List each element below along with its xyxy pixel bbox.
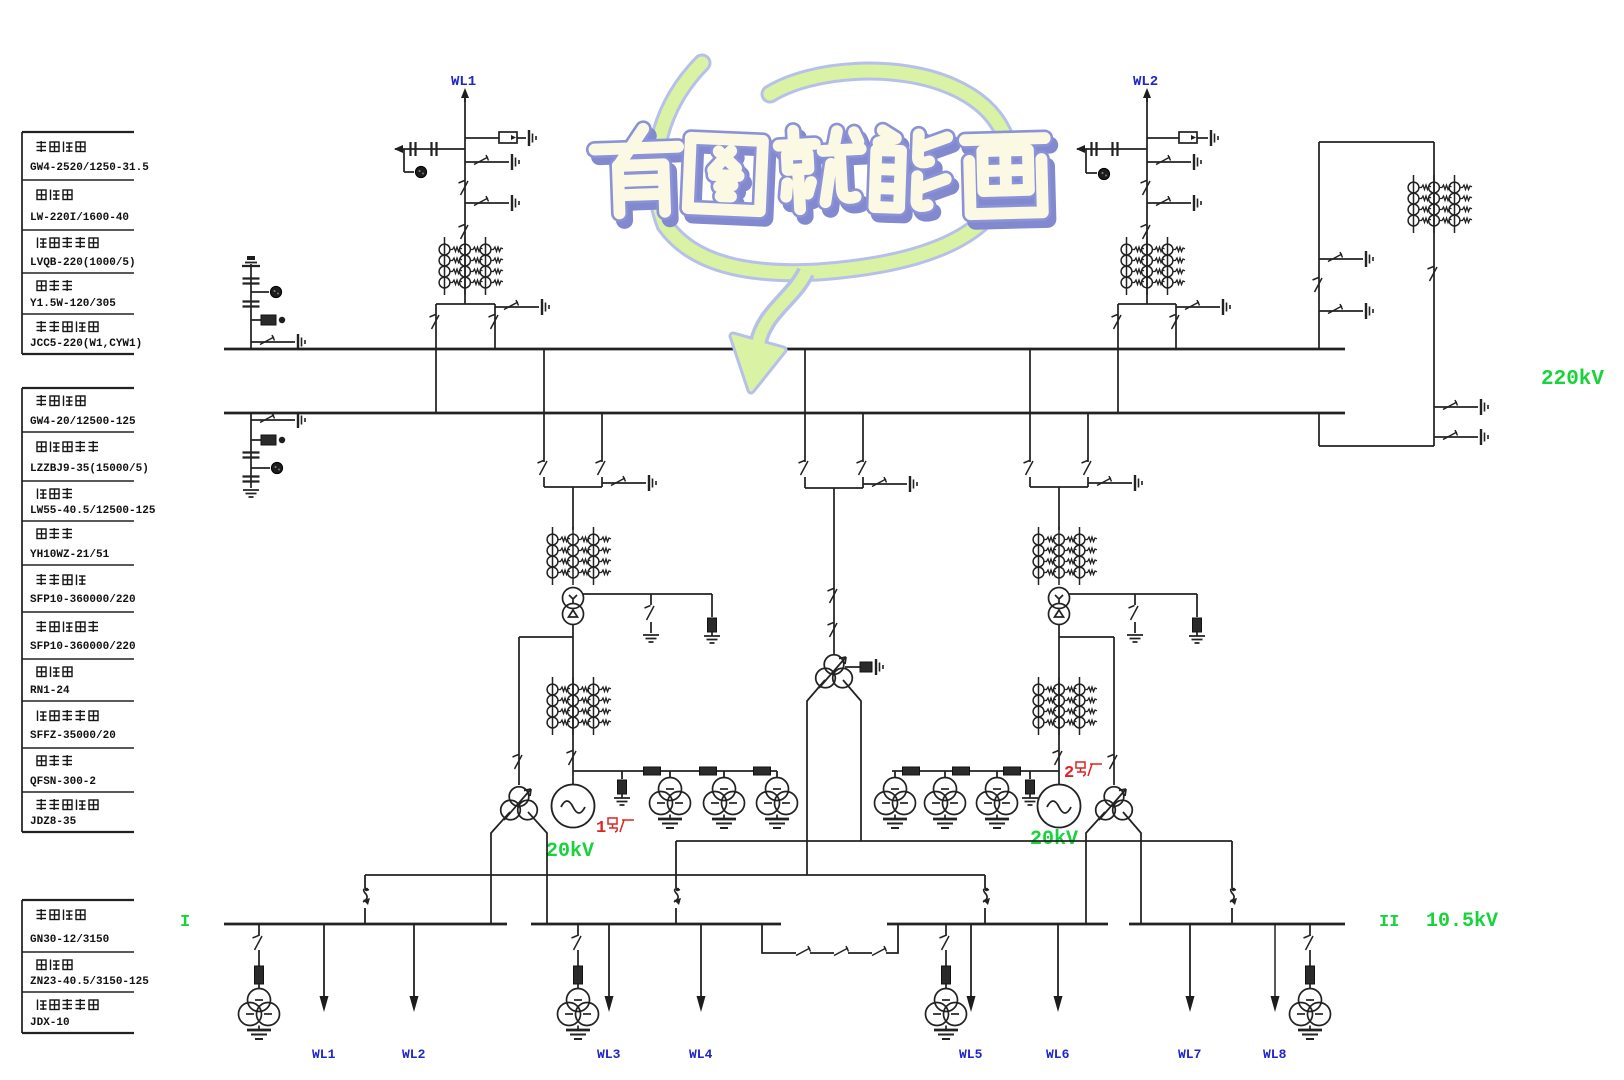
svg-text:WL8: WL8 (1263, 1047, 1287, 1062)
standby legs (807, 680, 861, 875)
svg-text:WL4: WL4 (689, 1047, 713, 1062)
feeder WL4 (689, 924, 713, 1062)
ground CVT W2 (243, 490, 259, 497)
switch line B right (983, 888, 990, 905)
svg-text:JCC5-220(W1,CYW1): JCC5-220(W1,CYW1) (30, 338, 142, 350)
svg-text:JDX-10: JDX-10 (30, 1017, 70, 1029)
unit aux transformer G1 (501, 787, 538, 820)
svg-text:LVQB-220(1000/5): LVQB-220(1000/5) (30, 257, 136, 269)
svg-text:II: II (1379, 913, 1399, 932)
fuse FU1 G1 (644, 767, 661, 775)
PT group 1 G2 (875, 778, 916, 829)
table row C.2 (30, 960, 149, 989)
disconnect to bus W1 WL1 (489, 315, 499, 330)
PT bay section II (1290, 924, 1331, 1039)
line arrow WL1 (461, 88, 469, 102)
switch line A right (1230, 888, 1237, 905)
fuse FU2 G1 (700, 767, 717, 775)
feeder WL3 (597, 924, 621, 1062)
disconnect to bus W2 WL2 (1112, 315, 1122, 330)
earthing switch coupler right upper (1434, 399, 1488, 415)
disconnect QS1 WL1 (459, 181, 469, 196)
table row B.10 (30, 799, 98, 828)
feeder WL7 (1178, 924, 1201, 1062)
svg-text:20kV: 20kV (546, 840, 594, 863)
PT group 2 G2 (925, 778, 966, 829)
svg-text:1: 1 (596, 819, 606, 838)
switch line A left (674, 888, 681, 905)
watermark text shadow (599, 135, 685, 221)
capacitor C2 WL2 (1113, 142, 1118, 156)
neutral ground T2 (1127, 635, 1143, 642)
arrester CVT W1 (270, 286, 281, 297)
svg-text:WL3: WL3 (597, 1047, 621, 1062)
svg-text:WL2: WL2 (402, 1047, 426, 1062)
svg-text:ZN23-40.5/3150-125: ZN23-40.5/3150-125 (30, 976, 149, 988)
disconnect aux G2 (1108, 755, 1118, 770)
earthing switch standby HV (863, 476, 917, 492)
fuse FU2 G2 (953, 767, 970, 775)
line arrow WL2 (1143, 88, 1151, 102)
svg-text:Y1.5W-120/305: Y1.5W-120/305 (30, 298, 116, 310)
surge counter box WL1 (465, 130, 536, 146)
PT unit box CVT W2 (261, 435, 285, 445)
tie disconnect 1 (796, 946, 811, 956)
neutral disconnect T2 (1129, 606, 1139, 621)
HV neutral branch T1 (583, 594, 712, 633)
aux legs G2 (1086, 812, 1141, 924)
breaker tie box WL1 (436, 304, 495, 413)
unit aux transformer G2 (1096, 787, 1133, 820)
arrester 20kV G2 (1022, 780, 1038, 805)
earthing switch coupler left upper (1319, 251, 1373, 267)
table row B.9 (30, 755, 96, 788)
fuse FU3 G1 (754, 767, 771, 775)
disconnect standby from W2 (857, 461, 867, 476)
svg-text:LW-220I/1600-40: LW-220I/1600-40 (30, 212, 129, 224)
svg-text:LW55-40.5/12500-125: LW55-40.5/12500-125 (30, 505, 156, 517)
standby feed line A (676, 841, 1232, 924)
bus section 2 (531, 923, 781, 926)
svg-text:GW4-2520/1250-31.5: GW4-2520/1250-31.5 (30, 162, 149, 174)
coupling capacitor branch WL2 (1077, 149, 1147, 173)
table row B.4 (30, 528, 110, 561)
equipment table C (22, 900, 134, 1033)
feeder WL8 (1263, 924, 1287, 1062)
disconnect QS2 WL2 (1141, 225, 1151, 240)
CT group WL1 (439, 237, 503, 295)
neutral ground T1 (643, 635, 659, 642)
disconnect G1 (567, 751, 577, 766)
svg-text:JDZ8-35: JDZ8-35 (30, 816, 77, 828)
neutral arrester T1 (704, 618, 720, 643)
wire CVT W1 (251, 264, 269, 349)
earthing switch ES3 WL1 (495, 299, 549, 315)
generator G1 (572, 771, 574, 785)
disconnect QS1 WL2 (1141, 181, 1151, 196)
disconnect T2 from W1 (1024, 461, 1034, 476)
disconnect aux G1 (513, 755, 523, 770)
svg-text:I: I (180, 913, 190, 932)
arrester CVT W2 (271, 462, 282, 473)
feeder WL6 (1046, 924, 1070, 1062)
wire WL2 main (1146, 96, 1148, 304)
table row B.6 (30, 621, 136, 653)
capacitor C1 WL2 (1092, 142, 1097, 156)
label 2号厂 (1064, 762, 1102, 783)
equipment table A (22, 132, 134, 354)
table row A.1 (30, 141, 149, 174)
wire T1 bay (544, 349, 602, 530)
watermark text outline (594, 128, 680, 214)
capacitor CVT W2 upper (243, 453, 260, 458)
arrester F1 WL1 (415, 166, 426, 177)
svg-text:GN30-12/3150: GN30-12/3150 (30, 934, 109, 946)
earthing switch ES1 WL1 (465, 154, 519, 170)
svg-text:LZZBJ9-35(15000/5): LZZBJ9-35(15000/5) (30, 463, 149, 475)
table row A.2 (30, 190, 129, 225)
wire T2 LV (1059, 624, 1114, 785)
label 1号厂 (596, 818, 634, 838)
aux legs G1 (491, 812, 547, 924)
earthing switch coupler right lower (1434, 429, 1488, 445)
PT bay section I (239, 924, 280, 1039)
PT group 2 G1 (704, 778, 745, 829)
ground top CVT W1 (242, 256, 260, 266)
svg-text:WL5: WL5 (959, 1047, 983, 1062)
svg-text:2: 2 (1064, 764, 1074, 783)
arrester F1 WL2 (1098, 168, 1109, 179)
earthing switch T2 HV (1088, 475, 1142, 491)
svg-text:220kV: 220kV (1541, 368, 1604, 391)
capacitor CVT W1 upper (243, 279, 260, 284)
bus section II (1129, 923, 1345, 926)
watermark arrow (733, 272, 806, 390)
watermark oval (655, 63, 1009, 273)
PT bay section 3 (926, 924, 967, 1039)
disconnect T1 from W2 (596, 461, 606, 476)
disconnect coupler left (1313, 278, 1323, 293)
CT group coupler (1408, 175, 1472, 233)
neutral disconnect T1 (645, 606, 655, 621)
earthing switch ES2 WL1 (465, 195, 519, 211)
table row A.4 (30, 280, 116, 310)
svg-text:QFSN-300-2: QFSN-300-2 (30, 776, 96, 788)
feeder WL1 (312, 924, 336, 1062)
svg-text:WL1: WL1 (312, 1047, 336, 1062)
PT unit box CVT W1 (261, 315, 285, 325)
wire WL1 main (464, 96, 466, 304)
svg-text:YH10WZ-21/51: YH10WZ-21/51 (30, 549, 110, 561)
table row B.8 (30, 710, 116, 742)
capacitor C2 WL1 (432, 142, 437, 156)
earthing switch CVT W2 (251, 412, 305, 428)
fuse FU1 G2 (903, 767, 920, 775)
fuse FU3 G2 (1004, 767, 1021, 775)
svg-text:RN1-24: RN1-24 (30, 685, 70, 697)
disconnect standby 2 (828, 623, 838, 638)
20kV PT feeder bus G2 (892, 771, 1059, 779)
table row C.1 (30, 909, 109, 946)
wire standby bay (805, 349, 863, 655)
svg-text:WL2: WL2 (1133, 74, 1158, 90)
CT group T2 HV (1033, 527, 1097, 585)
wire coupler top (1319, 142, 1434, 446)
disconnect T1 from W1 (538, 461, 548, 476)
bus tie loop sections 2-3 (762, 924, 898, 953)
generator G2 (1058, 771, 1060, 785)
earthing switch CVT W1 (251, 334, 305, 350)
earthing switch ES3 WL2 (1176, 299, 1230, 315)
svg-text:WL7: WL7 (1178, 1047, 1201, 1062)
standby feed line B (365, 875, 985, 924)
tie disconnect 2 (872, 946, 887, 956)
main transformer T2 (1049, 588, 1070, 625)
table row A.3 (30, 237, 136, 269)
PT group 1 G1 (650, 778, 691, 829)
surge counter box WL2 (1147, 130, 1218, 146)
svg-text:SFP10-360000/220: SFP10-360000/220 (30, 641, 136, 653)
earthing switch ES1 WL2 (1147, 154, 1201, 170)
neutral arrester T2 (1189, 618, 1205, 643)
table row C.3 (30, 999, 98, 1029)
disconnect T2 from W2 (1082, 461, 1092, 476)
CT group T2 LV (1033, 677, 1097, 735)
breaker tie box WL2 (1118, 304, 1176, 413)
bus section I (224, 923, 507, 926)
main transformer T1 (563, 588, 584, 625)
CT group T1 HV (547, 527, 611, 585)
bus W2 220kV (224, 412, 1345, 415)
disconnect standby from W1 (799, 461, 809, 476)
arrow left WL1 (394, 145, 403, 153)
disconnect standby 1 (828, 589, 838, 604)
feeder WL2 (402, 924, 426, 1062)
PT group 3 G2 (977, 778, 1018, 829)
table row B.5 (30, 574, 136, 606)
tie breaker (834, 946, 849, 956)
svg-text:WL6: WL6 (1046, 1047, 1070, 1062)
coupling capacitor branch WL1 (395, 149, 465, 172)
20kV PT feeder bus G1 (573, 771, 777, 779)
CT group WL2 (1121, 237, 1185, 295)
bus W1 220kV (224, 348, 1345, 351)
HV neutral branch T2 (1069, 594, 1197, 633)
capacitor C1 WL1 (411, 142, 416, 156)
PT group 3 G1 (757, 778, 798, 829)
svg-text:GW4-20/12500-125: GW4-20/12500-125 (30, 416, 136, 428)
wire T2 bay (1030, 349, 1088, 530)
earthing switch T1 HV (602, 475, 656, 491)
svg-text:SFP10-360000/220: SFP10-360000/220 (30, 594, 136, 606)
wire T1 LV (519, 624, 573, 785)
disconnect to bus W1 WL2 (1170, 315, 1180, 330)
arrester standby (845, 659, 883, 675)
arrow left WL2 (1076, 145, 1085, 153)
PT bay section 2 (558, 924, 599, 1039)
svg-text:10.5kV: 10.5kV (1426, 910, 1498, 933)
CT group T1 LV (547, 677, 611, 735)
disconnect G2 (1053, 751, 1063, 766)
wire CVT W2 (251, 413, 270, 488)
watermark text fill (594, 128, 680, 214)
earthing switch coupler left lower (1319, 303, 1373, 319)
svg-text:WL1: WL1 (451, 74, 476, 90)
table row B.1 (30, 395, 136, 428)
capacitor CVT W1 lower (243, 302, 260, 307)
arrester 20kV G1 (614, 780, 630, 805)
capacitor CVT W2 lower (243, 477, 260, 482)
table row B.7 (30, 667, 72, 698)
bus section 3 (887, 923, 1108, 926)
disconnect QS2 WL1 (459, 225, 469, 240)
disconnect coupler right (1428, 267, 1438, 282)
table row B.2 (30, 441, 149, 475)
svg-text:SFFZ-35000/20: SFFZ-35000/20 (30, 730, 116, 742)
feeder WL5 (959, 924, 983, 1062)
switch line B left (363, 888, 370, 905)
table row A.5 (30, 321, 142, 350)
earthing switch ES2 WL2 (1147, 195, 1201, 211)
svg-text:20kV: 20kV (1030, 828, 1078, 851)
equipment table B (22, 388, 134, 832)
standby transformer T0 (816, 655, 853, 688)
table row B.3 (30, 488, 156, 517)
disconnect to bus W2 WL1 (430, 315, 440, 330)
